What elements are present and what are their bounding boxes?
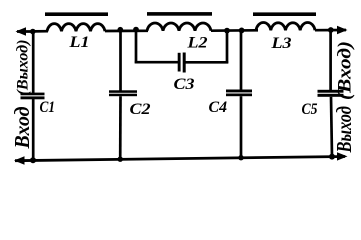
wire L1 to L2 [105,29,148,32]
svg-text:C4: C4 [209,99,228,116]
wire L3 to right port [315,29,346,32]
wire C2 lower [119,96,122,159]
junction top-left corner [30,29,36,35]
wire parallel-branch right horizontal [186,61,229,64]
junction C2 top [117,27,123,33]
core bar of L2 [147,12,212,16]
wire parallel-branch right vertical [226,30,229,63]
junction bottom-left corner [30,157,36,163]
svg-text:(Выход): (Выход) [14,40,31,96]
capacitor C5 [318,90,344,97]
svg-text:C5: C5 [302,101,318,118]
svg-text:C3: C3 [174,76,195,93]
inductor L2 [147,23,211,31]
svg-text:L2: L2 [186,35,207,52]
capacitor C2 [109,90,137,96]
inductor L3 [256,22,315,30]
svg-text:C1: C1 [40,99,56,116]
wire left rail lower [32,99,35,161]
wire top-left horizontal [17,30,34,33]
junction C2 bottom [118,157,123,162]
junction C4 top [239,28,245,34]
svg-text:Выход: Выход [332,106,356,153]
capacitor C1 [21,93,45,100]
capacitor C3 [178,53,186,73]
port arrow input top-left [16,27,27,35]
port arrow output bottom-right [337,152,348,160]
inductor L1 [47,24,105,32]
junction L2 parallel right [224,28,230,34]
wire left rail upper [32,32,35,94]
junction bottom-right corner [329,154,335,160]
svg-text:L1: L1 [68,34,89,51]
core bar of L1 [45,12,108,16]
svg-text:C2: C2 [130,101,151,118]
port arrow output top-right [337,26,348,34]
svg-text:L3: L3 [270,35,291,52]
wire parallel-branch left vertical [135,30,138,64]
svg-text:Вход: Вход [10,107,34,150]
wire parallel-branch left horizontal [135,61,178,64]
core bar of L3 [253,12,316,16]
capacitor C4 [226,90,252,97]
port arrow input bottom-left [14,156,25,164]
wire C4 upper [240,30,243,89]
wire C4 lower [240,96,243,158]
junction top-right corner [328,27,334,33]
wire C2 upper [119,30,122,91]
junction L2 parallel left [133,27,139,33]
wire right rail lower [331,97,332,157]
junction C4 bottom [238,155,243,160]
svg-text:(Вход): (Вход) [336,41,356,100]
wire right rail upper [329,30,332,90]
wire L2 to L3 [211,29,258,32]
wire top, left-rail to L1 [33,30,48,33]
wire bottom rail [15,157,345,161]
